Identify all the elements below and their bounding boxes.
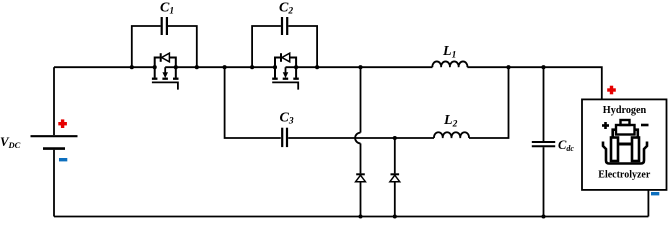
mosfet Q2 body diode loop	[275, 58, 280, 78]
capacitor C1 loop wires	[132, 26, 161, 67]
node: Q2 source crossing	[294, 65, 298, 69]
svg-text:C3: C3	[280, 111, 294, 127]
capacitor C2 loop wires	[252, 26, 281, 67]
node: Q1 drain on top rail	[153, 65, 157, 69]
mosfet Q1 source/body stub with arrow	[164, 67, 166, 73]
icon battery body	[616, 125, 635, 135]
wire: top rail after L1 to right corner, down to electrolyzer	[467, 67, 601, 99]
wire: D2 anode to bottom rail	[394, 182, 396, 217]
battery minus mark	[59, 158, 67, 161]
svg-text:VDC: VDC	[0, 135, 21, 150]
node: D2 tap on middle line	[393, 136, 397, 140]
electrolyzer icon	[602, 120, 649, 164]
wire: battery bottom plate to bottom rail	[53, 150, 55, 217]
mosfet Q2 body diode triangle	[282, 53, 290, 62]
wire: D1 anode to bottom rail	[360, 182, 362, 217]
mosfet Q2 source/body stub with arrow	[285, 67, 287, 73]
mosfet Q1 channel dashes	[152, 78, 179, 80]
wire: middle line from C3 to L2 (continuous under the hop)	[288, 137, 434, 139]
wire: top rail left segment (battery + to Q1 drain)	[54, 66, 155, 68]
icon right arm	[635, 130, 638, 138]
svg-text:C2: C2	[279, 1, 293, 17]
inductor L1 coil	[432, 61, 467, 67]
wire hop (crossover) at middle line	[355, 133, 360, 144]
icon battery cap	[621, 120, 630, 125]
svg-text:Cdc: Cdc	[558, 138, 574, 153]
node: C1 right on top rail	[195, 65, 199, 69]
node: middle branch tap on top rail	[223, 65, 227, 69]
battery plus mark	[58, 119, 67, 128]
wire: middle branch vertical from top rail	[225, 67, 281, 138]
mosfet Q2 gate plate and lead	[272, 82, 298, 89]
wire: left vertical from top rail to battery top plate	[53, 67, 55, 135]
node: C2 left on top rail	[250, 65, 254, 69]
node: Q1 source crossing	[174, 65, 178, 69]
svg-text:L2: L2	[443, 113, 458, 130]
capacitor C_dc plates	[532, 142, 555, 146]
wire: vertical from top rail to diode D1 with hop over middle line	[360, 67, 362, 132]
icon right electrode	[632, 138, 639, 162]
node: D1 branch tap on top rail	[358, 65, 362, 69]
wire: top rail right segment (Q2 source to electrolyzer)	[286, 66, 433, 68]
mosfet Q1 body diode loop	[155, 58, 160, 78]
node: C2 right on top rail	[315, 65, 319, 69]
icon minus	[641, 124, 649, 127]
icon left arm	[613, 130, 616, 138]
wire: vertical from middle line to diode D2	[394, 138, 396, 173]
node: D2 on bottom rail	[393, 214, 397, 218]
wire: electrolyzer bottom lead to bottom rail	[647, 190, 649, 217]
icon tank	[603, 142, 647, 164]
node: Q2 drain on top rail	[273, 65, 277, 69]
svg-text:L1: L1	[442, 44, 456, 61]
electrolyzer minus mark	[651, 192, 659, 195]
capacitor C3 plates	[282, 128, 287, 147]
electrolyzer box	[582, 99, 667, 189]
svg-text:C1: C1	[160, 1, 174, 17]
mosfet Q1 gate plate and lead	[152, 82, 178, 89]
svg-text:Electrolyzer: Electrolyzer	[598, 170, 651, 181]
diode D1 bar	[356, 173, 365, 175]
wire: C_dc branch upper	[543, 67, 545, 141]
mosfet Q2 body diode bar	[280, 53, 282, 62]
node: C_dc on bottom rail	[541, 214, 545, 218]
diode D2 triangle	[390, 175, 400, 182]
battery source V_DC	[31, 136, 78, 148]
capacitor C1 plates	[162, 17, 167, 35]
node: C_dc tap on top rail	[541, 65, 545, 69]
svg-text:Hydrogen: Hydrogen	[603, 105, 647, 116]
wire: C_dc branch lower	[543, 147, 545, 216]
node: L2 return on top rail	[506, 65, 510, 69]
wire: top rail middle segment (Q1 source to Q2 drain)	[165, 66, 275, 68]
mosfet Q2 channel dashes	[272, 78, 299, 80]
mosfet Q1 body diode triangle	[162, 53, 170, 62]
wire: bottom rail	[54, 216, 648, 218]
capacitor C2 plates	[282, 17, 287, 35]
mosfet Q1 body diode bar	[160, 53, 162, 62]
node: C1 left on top rail	[130, 65, 134, 69]
icon left electrode	[611, 138, 618, 162]
wire: middle line after L2 up to top rail junction	[469, 67, 509, 138]
diode D1 triangle	[356, 175, 366, 182]
electrolyzer plus mark	[607, 86, 616, 95]
icon plus	[602, 122, 609, 129]
node: D1 on bottom rail	[358, 214, 362, 218]
diode D2 bar	[391, 173, 400, 175]
inductor L2 coil	[434, 132, 469, 138]
icon crossbar	[618, 143, 632, 146]
